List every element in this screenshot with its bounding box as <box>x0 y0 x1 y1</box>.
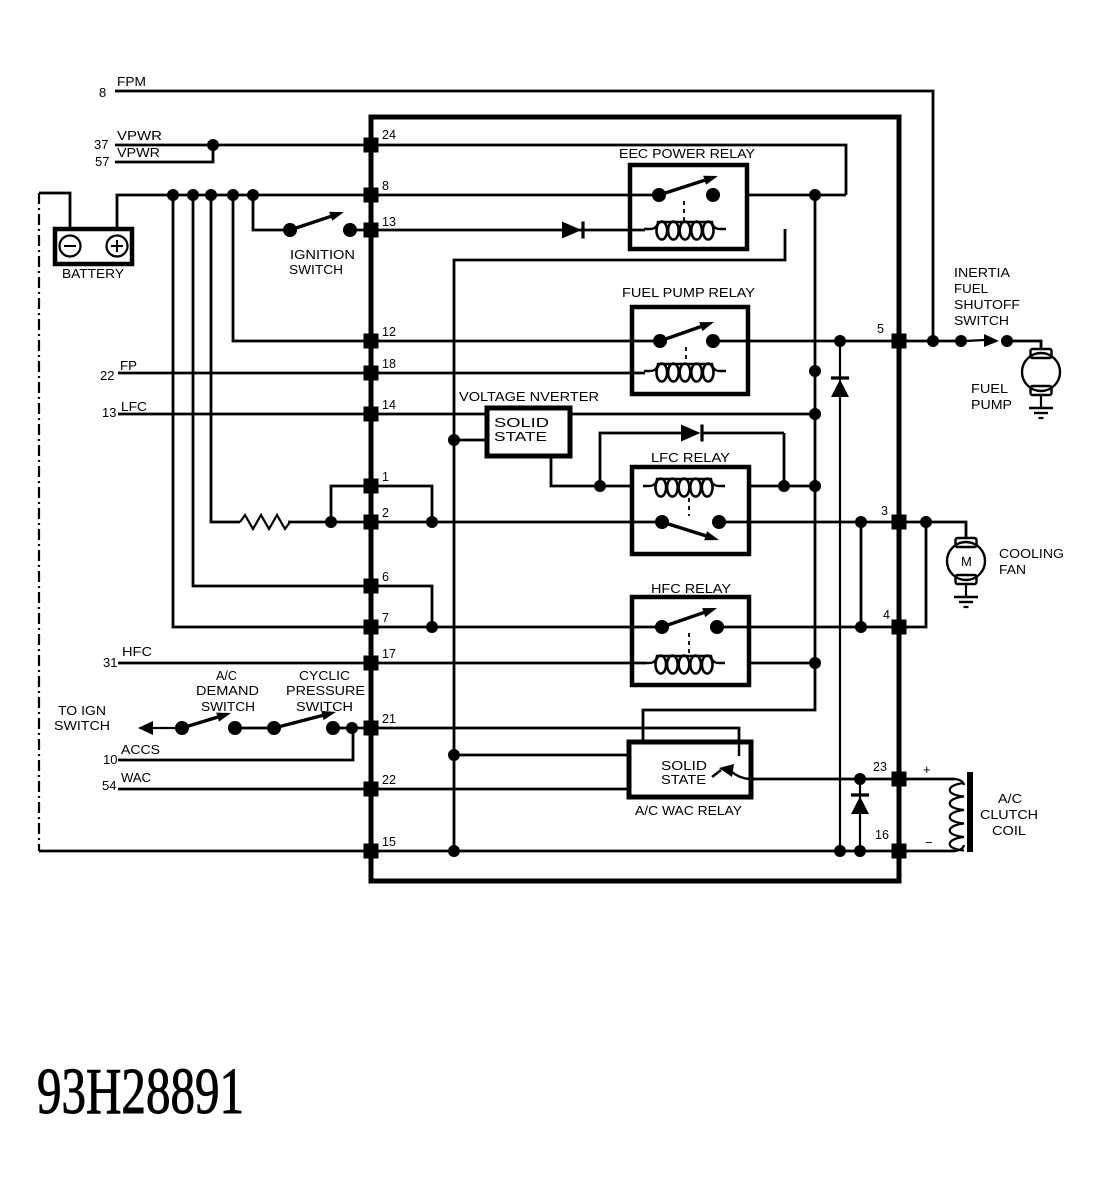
LFC relay switch <box>655 515 726 540</box>
svg-text:LFC RELAY: LFC RELAY <box>651 450 730 465</box>
node HFC coil bus junction <box>809 657 821 669</box>
svg-text:54: 54 <box>102 778 116 793</box>
svg-text:1: 1 <box>382 470 389 484</box>
label VOLTAGE NVERTER <box>459 389 599 404</box>
svg-text:93H28891: 93H28891 <box>37 1055 244 1128</box>
wire pin7 row to HFC switch <box>371 626 662 629</box>
A/C WAC relay U2 <box>629 742 751 797</box>
wire pin23 external <box>899 778 955 781</box>
wire pin18 row to FP coil <box>371 372 645 375</box>
svg-text:STATE: STATE <box>661 773 706 787</box>
node D3 top junction <box>834 335 846 347</box>
label clutch polarity <box>923 762 933 850</box>
label VPWR 37 <box>94 129 162 152</box>
svg-text:7: 7 <box>382 611 389 625</box>
node bat j2 <box>187 189 199 201</box>
svg-text:FPM: FPM <box>117 75 146 89</box>
svg-text:VOLTAGE NVERTER: VOLTAGE NVERTER <box>459 389 599 404</box>
label INERTIA FUEL SHUTOFF SWITCH <box>954 266 1020 328</box>
wire to-ign arrow <box>138 721 182 735</box>
pin 13 <box>364 215 396 238</box>
svg-text:−: − <box>925 835 933 850</box>
svg-text:SWITCH: SWITCH <box>201 700 255 714</box>
node ground row bus junction <box>448 845 460 857</box>
wire FP to pin18 <box>118 372 371 375</box>
svg-text:SHUTOFF: SHUTOFF <box>954 298 1020 312</box>
node resistor-pin1 junction <box>325 516 337 528</box>
label U1 SOLID STATE <box>494 415 549 444</box>
svg-text:FUEL: FUEL <box>954 282 988 296</box>
wire HFC switch out to pin4 <box>717 626 899 629</box>
wire ground bus to pin15 <box>39 850 371 853</box>
svg-text:COOLING: COOLING <box>999 547 1064 561</box>
svg-text:6: 6 <box>382 570 389 584</box>
svg-text:FP: FP <box>120 359 137 373</box>
wire to fuel pump <box>1007 341 1041 349</box>
label FUEL PUMP <box>971 382 1012 412</box>
diode D3 (fuel pump clamp) <box>831 341 849 851</box>
wire pin24 to EEC relay output <box>371 145 846 195</box>
pin 24 <box>364 128 396 153</box>
svg-text:37: 37 <box>94 137 108 152</box>
svg-text:SWITCH: SWITCH <box>54 719 110 733</box>
svg-text:22: 22 <box>382 773 396 787</box>
wire LFC switch out to pin3 <box>719 521 899 524</box>
svg-text:18: 18 <box>382 357 396 371</box>
A/C clutch coil L1 <box>950 772 970 852</box>
LFC relay link <box>688 498 690 516</box>
wire resistor to pin2 <box>288 521 371 524</box>
wire internal ground bus <box>454 229 785 851</box>
fuel pump relay link <box>685 347 687 364</box>
pin 7 <box>364 611 390 635</box>
pin 21 <box>364 712 396 736</box>
label ACCS 10 <box>103 743 160 767</box>
wire ignition feed <box>253 195 290 230</box>
svg-text:HFC RELAY: HFC RELAY <box>651 581 731 596</box>
ECM main box <box>371 117 899 881</box>
node pin2 inner junction <box>426 516 438 528</box>
pin 14 <box>364 398 396 422</box>
svg-text:24: 24 <box>382 128 396 142</box>
svg-text:HFC: HFC <box>122 645 152 659</box>
svg-text:8: 8 <box>99 85 106 100</box>
svg-text:TO IGN: TO IGN <box>58 704 106 718</box>
diode D1 (EEC coil feed) <box>562 222 583 239</box>
cooling fan M2 <box>947 538 985 607</box>
svg-text:DEMAND: DEMAND <box>196 684 259 698</box>
pin 17 <box>364 647 396 671</box>
label FPM (pin 8) <box>99 75 146 100</box>
svg-text:A/C WAC RELAY: A/C WAC RELAY <box>635 804 743 818</box>
pin 12 <box>364 325 396 349</box>
EEC relay coil <box>644 222 726 240</box>
svg-text:2: 2 <box>382 506 389 520</box>
node pin14 bus junction <box>809 408 821 420</box>
svg-text:8: 8 <box>382 179 389 193</box>
wire between switches <box>235 727 274 730</box>
label 93H28891 <box>37 1055 244 1128</box>
wire pin8 row to EEC switch <box>371 194 659 197</box>
label WAC 54 <box>102 771 151 793</box>
A/C demand switch S2 <box>175 713 242 735</box>
wire pin5 external <box>899 340 961 343</box>
pin 6 <box>364 570 390 594</box>
node FP coil junction <box>809 365 821 377</box>
wire bus branch to WAC <box>454 754 629 757</box>
node EEC output junction <box>809 189 821 201</box>
pin 23 <box>873 760 907 787</box>
wire VPWR 37 <box>115 144 364 147</box>
wire LFC to pin14 <box>118 413 371 416</box>
label IGNITION SWITCH <box>289 248 355 277</box>
label A/C CLUTCH COIL <box>980 792 1038 838</box>
svg-text:FUEL PUMP RELAY: FUEL PUMP RELAY <box>622 285 755 300</box>
svg-text:13: 13 <box>102 405 116 420</box>
wire ACCS to pin21 row <box>118 728 353 760</box>
svg-text:23: 23 <box>873 760 887 774</box>
U2 transistor arrow <box>712 742 749 779</box>
label TO IGN SWITCH <box>54 704 110 733</box>
svg-text:SOLID: SOLID <box>661 759 707 773</box>
node fan junction <box>920 516 932 528</box>
svg-text:FAN: FAN <box>999 563 1026 577</box>
wire feeder to pin7 row <box>173 195 371 627</box>
node FPM junction <box>927 335 939 347</box>
node bat j3 <box>205 189 217 201</box>
svg-text:17: 17 <box>382 647 396 661</box>
wire ignition to pin13 <box>350 229 371 232</box>
wire to pin21 <box>333 727 371 730</box>
svg-text:INERTIA: INERTIA <box>954 266 1011 280</box>
label LFC RELAY <box>651 450 730 465</box>
voltage inverter U1 <box>487 408 570 456</box>
wire EEC output row <box>748 194 846 197</box>
fuel pump relay switch <box>653 322 720 348</box>
relay K2 fuel pump relay box <box>632 307 748 394</box>
wire pin17 row to HFC coil <box>371 662 645 665</box>
label FP 22 <box>100 359 137 383</box>
svg-text:12: 12 <box>382 325 396 339</box>
svg-text:ACCS: ACCS <box>121 743 160 757</box>
label HFC RELAY <box>651 581 731 596</box>
wire battery negative to left bus <box>39 193 70 229</box>
wire pin3 external <box>899 522 966 538</box>
node D4 top junction <box>854 773 866 785</box>
inertia fuel shutoff switch S1 <box>955 334 1013 347</box>
wire WAC out to pin23 <box>751 778 899 781</box>
label EEC POWER RELAY <box>619 146 755 161</box>
wire pin13 row to EEC coil <box>371 229 645 232</box>
svg-text:PUMP: PUMP <box>971 398 1012 412</box>
label U2 SOLID STATE <box>661 759 707 787</box>
svg-text:+: + <box>923 762 931 777</box>
wire inverter input stub <box>454 439 487 442</box>
label LFC 13 <box>102 400 147 420</box>
svg-text:14: 14 <box>382 398 396 412</box>
ignition switch S4 <box>283 212 357 237</box>
pin 15 <box>364 835 396 859</box>
relay K1 EEC power relay box <box>630 165 747 249</box>
wire battery positive riser <box>117 195 173 229</box>
svg-text:31: 31 <box>103 655 117 670</box>
svg-text:BATTERY: BATTERY <box>62 266 124 281</box>
svg-text:STATE: STATE <box>494 429 547 444</box>
wire inverter output stub <box>551 456 632 486</box>
svg-text:CYCLIC: CYCLIC <box>299 669 350 683</box>
diode D4 (clutch clamp) <box>851 779 869 851</box>
svg-text:SWITCH: SWITCH <box>289 263 343 277</box>
HFC relay link <box>688 633 690 656</box>
wire D2 loop <box>600 433 784 486</box>
svg-text:A/C: A/C <box>216 669 237 683</box>
svg-text:M: M <box>961 554 972 569</box>
svg-text:5: 5 <box>877 322 884 336</box>
label FUEL PUMP RELAY <box>622 285 755 300</box>
pin 8 <box>364 179 390 203</box>
wire pin1 inner loop <box>371 486 432 522</box>
svg-text:57: 57 <box>95 154 109 169</box>
wire pin16 external <box>899 850 955 853</box>
wire HFC coil out to bus <box>749 662 815 665</box>
LFC relay coil <box>643 479 725 497</box>
wire pin22 row to WAC <box>371 788 629 791</box>
EEC relay link <box>683 201 685 222</box>
node inverter input junction <box>448 434 460 446</box>
node bat j4 <box>227 189 239 201</box>
HFC relay switch <box>655 608 724 634</box>
label A/C DEMAND SWITCH <box>196 669 259 714</box>
wire pin3-pin4 jumper <box>860 522 863 627</box>
wire LFC coil out to bus <box>749 485 815 488</box>
wire feeder to resistor <box>211 195 240 522</box>
svg-text:CLUTCH: CLUTCH <box>980 808 1038 822</box>
wire pin4 external <box>899 522 926 627</box>
node ACCS junction <box>346 722 358 734</box>
wire pin14 row to inverter <box>371 413 487 416</box>
resistor R1 <box>240 515 290 529</box>
node LFC coil bus junction <box>809 480 821 492</box>
svg-text:COIL: COIL <box>992 824 1026 838</box>
svg-text:PRESSURE: PRESSURE <box>286 684 365 698</box>
wire FPM <box>115 91 933 335</box>
wire WAC to pin22 <box>118 788 371 791</box>
node pin3 jumper junction <box>855 516 867 528</box>
cyclic pressure switch S3 <box>267 711 340 735</box>
relay K3 LFC relay box <box>632 467 749 554</box>
pin 3 <box>881 504 907 530</box>
svg-text:EEC POWER RELAY: EEC POWER RELAY <box>619 146 755 161</box>
node D4 bottom junction <box>854 845 866 857</box>
HFC relay coil <box>643 656 725 674</box>
fuel pump relay coil <box>644 364 726 382</box>
pin 16 <box>875 828 907 859</box>
pin 2 <box>364 506 390 530</box>
battery B1 <box>55 229 132 264</box>
label BATTERY <box>62 266 124 281</box>
pin 22 <box>364 773 396 797</box>
svg-text:15: 15 <box>382 835 396 849</box>
wire HFC to pin17 <box>118 662 371 665</box>
node VPWR junction <box>207 139 219 151</box>
node bus-WAC junction <box>448 749 460 761</box>
svg-text:10: 10 <box>103 752 117 767</box>
pin 4 <box>883 608 907 635</box>
svg-text:FUEL: FUEL <box>971 382 1008 396</box>
wire pin21 row to WAC <box>371 728 739 742</box>
svg-text:LFC: LFC <box>121 400 147 414</box>
wire relay coil power bus <box>643 195 815 742</box>
pin 18 <box>364 357 396 381</box>
pin 5 <box>877 322 907 349</box>
node LFC coil input junction <box>594 480 606 492</box>
wire VPWR 57 <box>115 145 213 162</box>
svg-text:22: 22 <box>100 368 114 383</box>
node bat j5 <box>247 189 259 201</box>
svg-text:A/C: A/C <box>998 792 1022 806</box>
svg-text:16: 16 <box>875 828 889 842</box>
svg-text:IGNITION: IGNITION <box>290 248 355 262</box>
node pin7 inner junction <box>426 621 438 633</box>
node pin4 jumper junction <box>855 621 867 633</box>
wire feeder to pin12 row <box>233 195 371 341</box>
svg-text:VPWR: VPWR <box>117 129 162 143</box>
fuel pump M1 <box>1022 349 1060 418</box>
label CYCLIC PRESSURE SWITCH <box>286 669 365 714</box>
label COOLING FAN <box>999 547 1064 577</box>
wire pin15 ground row <box>371 850 899 853</box>
wire pin2 row to LFC switch <box>371 521 662 524</box>
wire left ground bus (dash-dot) <box>38 193 40 851</box>
node D2 return junction <box>778 480 790 492</box>
pin 1 <box>364 470 390 494</box>
svg-text:SWITCH: SWITCH <box>954 314 1009 328</box>
diode D2 (LFC coil bypass) <box>681 425 702 442</box>
wire battery bus to pin8 <box>173 194 371 197</box>
svg-text:4: 4 <box>883 608 890 622</box>
label HFC 31 <box>103 645 152 670</box>
wire FP switch out to pin5 <box>713 340 899 343</box>
EEC relay switch <box>652 176 720 202</box>
wire pin12 row to FP switch <box>371 340 660 343</box>
svg-text:21: 21 <box>382 712 396 726</box>
label VPWR 57 <box>95 146 160 169</box>
wire inverter out row to bus <box>570 413 816 416</box>
svg-text:SOLID: SOLID <box>494 415 549 430</box>
svg-text:3: 3 <box>881 504 888 518</box>
node bat j1 <box>167 189 179 201</box>
svg-text:13: 13 <box>382 215 396 229</box>
svg-text:SWITCH: SWITCH <box>296 700 353 714</box>
node D3 bottom junction <box>834 845 846 857</box>
wire pin1 outer loop <box>331 486 371 522</box>
wire feeder to pin6 row <box>193 195 371 586</box>
svg-text:WAC: WAC <box>121 771 151 785</box>
svg-text:VPWR: VPWR <box>117 146 160 160</box>
wire pin6 inner loop <box>371 586 432 627</box>
relay K4 HFC relay box <box>632 597 749 685</box>
label A/C WAC RELAY <box>635 804 743 818</box>
